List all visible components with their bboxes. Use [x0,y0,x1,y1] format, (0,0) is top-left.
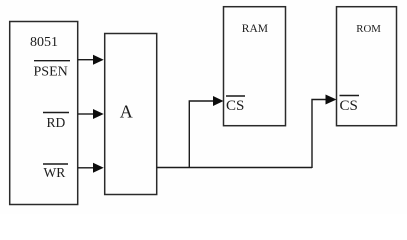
svg-text:A: A [120,101,133,121]
block 8051 [10,22,78,205]
arrowhead RAM CS [213,96,224,106]
overline PSEN [34,60,70,62]
arrowhead WR [93,163,104,173]
block RAM [224,7,286,126]
wire branch to RAM: vertical riser [189,101,214,168]
svg-text:RAM: RAM [242,23,268,35]
svg-text:8051: 8051 [30,35,58,50]
svg-text:CS: CS [226,98,244,114]
wire WR to A [78,167,94,169]
overline RD [43,112,69,114]
wire RD to A [78,113,94,115]
svg-text:RD: RD [47,115,66,130]
arrowhead RD [93,109,104,119]
arrowhead ROM CS [326,95,337,105]
svg-text:WR: WR [44,165,66,180]
wire PSEN to A [78,59,94,61]
overline CS RAM [226,95,245,97]
svg-text:CS: CS [340,98,358,114]
wire branch to ROM: vertical riser [312,100,326,169]
svg-text:PSEN: PSEN [34,65,68,80]
svg-text:ROM: ROM [356,23,381,35]
wire A output horizontal run [157,167,312,169]
overline WR [43,163,68,165]
decoder block A [105,34,157,195]
overline CS ROM [340,95,360,97]
arrowhead PSEN [93,55,104,65]
block ROM [337,7,397,126]
